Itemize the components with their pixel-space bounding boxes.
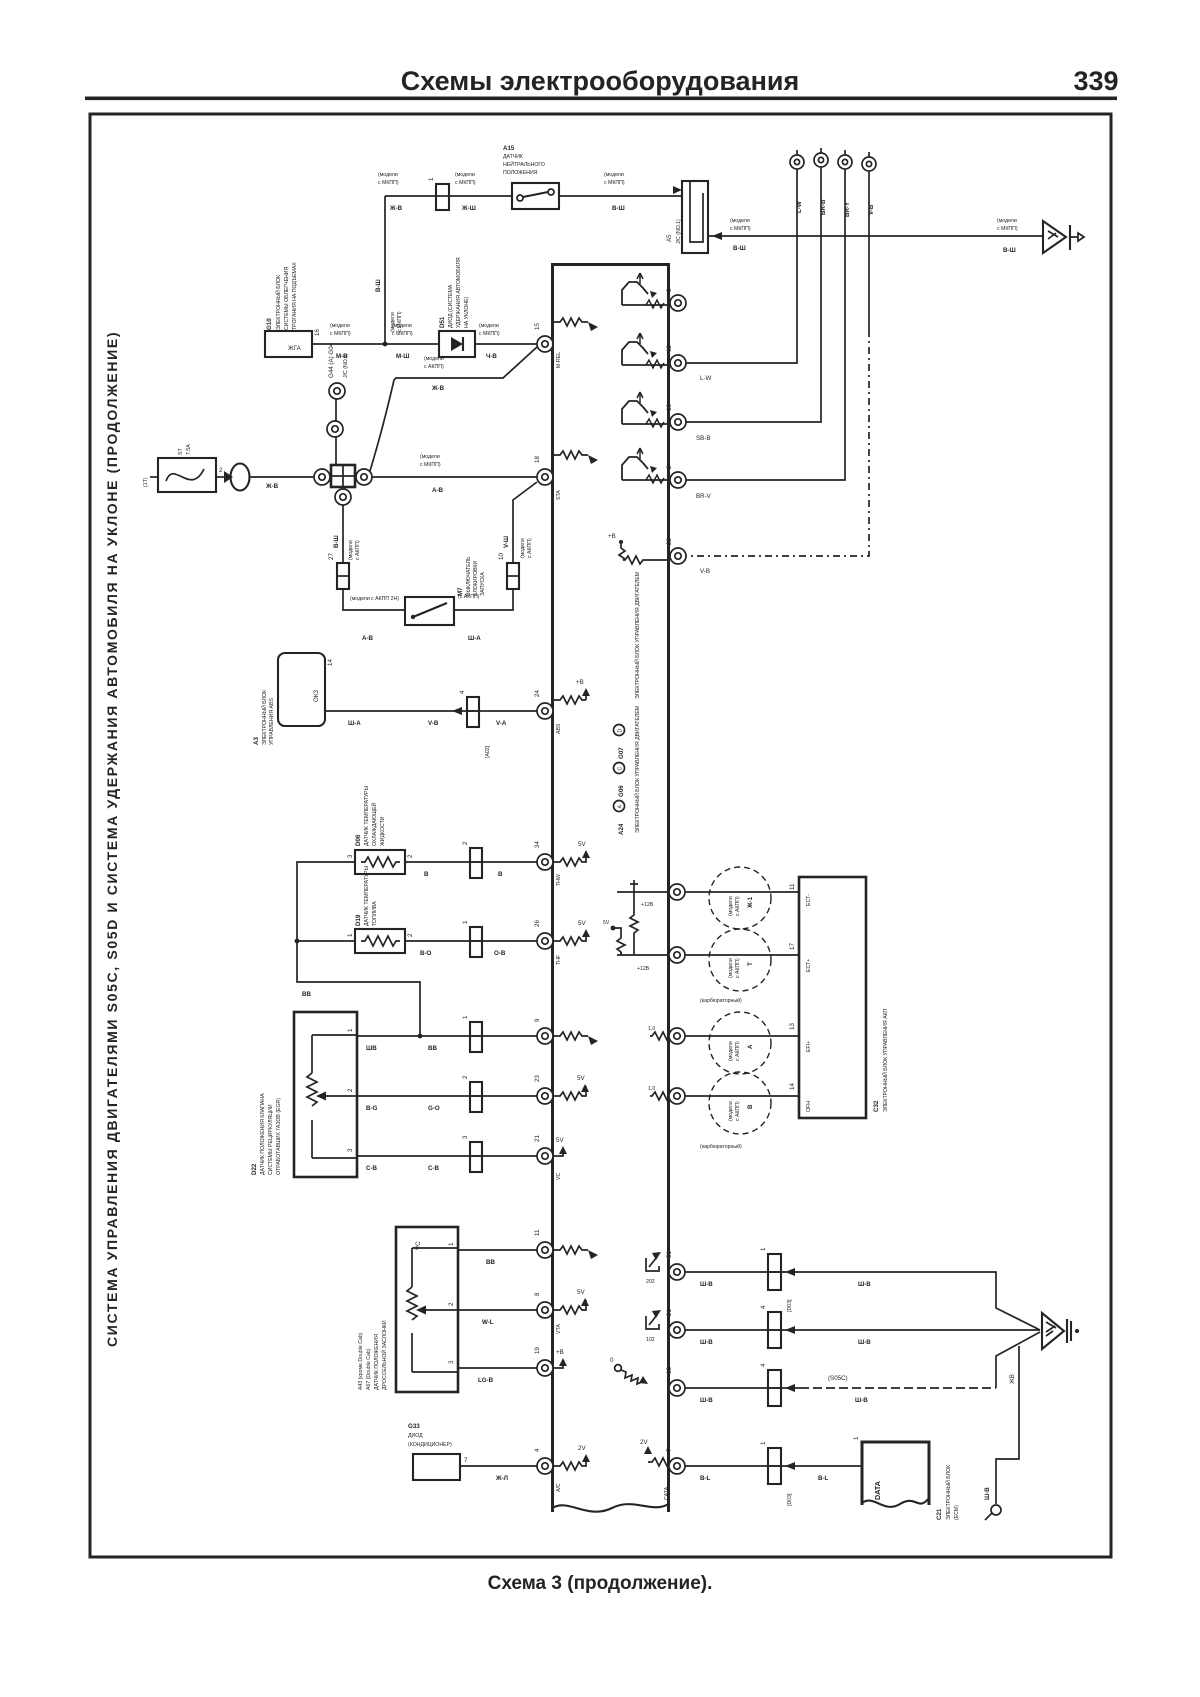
svg-text:с МКПП): с МКПП) <box>730 226 751 232</box>
svg-text:(модели с АКПП 2Н): (модели с АКПП 2Н) <box>350 596 399 602</box>
svg-text:В-О: В-О <box>420 950 432 957</box>
svg-text:(модели: (модели <box>728 1041 734 1061</box>
node A5 junction connector J/C NO.1 <box>666 181 708 253</box>
svg-text:V-А: V-А <box>496 720 507 727</box>
svg-text:с МКПП): с МКПП) <box>604 180 625 186</box>
node power symbol E01 <box>646 1252 661 1285</box>
svg-text:ОFН: ОFН <box>806 1101 812 1112</box>
svg-text:с АКПП): с АКПП) <box>735 1041 741 1061</box>
svg-text:VТА: VТА <box>556 1324 562 1334</box>
svg-text:18: 18 <box>666 1367 673 1374</box>
svg-text:V-В: V-В <box>428 720 439 727</box>
svg-text:СИСТЕМА УПРАВЛЕНИЯ ДВИГАТЕЛЯМИ: СИСТЕМА УПРАВЛЕНИЯ ДВИГАТЕЛЯМИ S05C, S05… <box>104 331 120 1347</box>
svg-text:ДРОССЕЛЬНОЙ ЗАСЛОНКИ: ДРОССЕЛЬНОЙ ЗАСЛОНКИ <box>380 1320 388 1390</box>
node pin 5 circle ECT- <box>669 884 685 900</box>
svg-text:В-Ш: В-Ш <box>333 535 340 548</box>
wire sensor ground bus <box>297 862 420 1036</box>
node junction block G44/G04 <box>314 342 372 505</box>
svg-text:G-О: G-О <box>428 1105 440 1112</box>
svg-text:1: 1 <box>347 1028 354 1032</box>
svg-text:БЛОКИРОВКИ: БЛОКИРОВКИ <box>473 561 479 596</box>
svg-text:0: 0 <box>610 1357 614 1364</box>
node pin 2 circle <box>670 472 686 488</box>
wire vertical BR-Y <box>686 169 845 480</box>
svg-text:(1Т): (1Т) <box>143 477 149 487</box>
node test point B dashed <box>709 1072 771 1134</box>
svg-text:34: 34 <box>534 841 541 848</box>
svg-text:7: 7 <box>464 1457 468 1464</box>
svg-text:5V: 5V <box>577 1289 585 1296</box>
node DATA link connector box <box>853 1436 929 1507</box>
svg-text:4: 4 <box>760 1363 767 1367</box>
wire header rule <box>85 97 1117 101</box>
svg-text:ЭЛЕКТРОННЫЙ БЛОК: ЭЛЕКТРОННЫЙ БЛОК <box>274 275 282 330</box>
resistor internal EFI <box>648 1026 672 1040</box>
resistor internal VC 5V <box>553 1137 567 1180</box>
diode D51 <box>439 257 475 357</box>
svg-text:ДАТЧИК: ДАТЧИК <box>503 154 523 160</box>
svg-text:Ж-В: Ж-В <box>431 385 445 392</box>
svg-text:9: 9 <box>534 1018 541 1022</box>
svg-text:G10: G10 <box>266 318 273 330</box>
svg-text:А67 (Double Cab): А67 (Double Cab) <box>366 1348 372 1390</box>
svg-text:ЖВ: ЖВ <box>1009 1374 1016 1384</box>
svg-text:(модели: (модели <box>730 218 750 224</box>
svg-text:А24: А24 <box>618 823 625 835</box>
svg-text:(КОНДИЦИОНЕР): (КОНДИЦИОНЕР) <box>408 1442 452 1448</box>
svg-text:Ж-В: Ж-В <box>265 483 279 490</box>
svg-text:1,0: 1,0 <box>648 1086 655 1092</box>
node pin 7 circle CATA <box>669 1458 685 1474</box>
svg-text:ДИОД: ДИОД <box>408 1433 423 1439</box>
svg-text:Ш-В: Ш-В <box>858 1339 871 1346</box>
svg-text:(модели: (модели <box>390 312 396 332</box>
svg-text:В-L: В-L <box>700 1475 711 1482</box>
svg-text:В-G: В-G <box>366 1105 378 1112</box>
resistor internal OFH <box>648 1086 672 1100</box>
node pin 12 circle <box>670 355 686 371</box>
svg-text:(карбюраторный): (карбюраторный) <box>700 997 742 1004</box>
svg-text:V-B: V-B <box>700 568 710 575</box>
svg-text:3: 3 <box>666 288 673 292</box>
svg-text:G07: G07 <box>618 747 625 759</box>
svg-text:G33: G33 <box>408 1423 420 1430</box>
svg-text:+В: +В <box>608 533 616 540</box>
resistor internal row E2 <box>554 1246 588 1254</box>
svg-text:НА УКЛОНЕ): НА УКЛОНЕ) <box>464 296 470 328</box>
node connector A05 row1 <box>470 1022 482 1052</box>
svg-text:А43 (кроме Double Cab): А43 (кроме Double Cab) <box>358 1332 364 1390</box>
node pin 21 circle VC <box>537 1148 553 1164</box>
svg-text:ЖИДКОСТИ: ЖИДКОСТИ <box>380 816 386 846</box>
wire vertical V-R dashed <box>868 171 870 330</box>
svg-text:4: 4 <box>534 1448 541 1452</box>
svg-text:2: 2 <box>219 467 223 474</box>
svg-text:ТОПЛИВА: ТОПЛИВА <box>372 901 378 926</box>
svg-text:В: В <box>424 871 429 878</box>
node pin 24 circle ABS <box>537 703 553 719</box>
node connector A02 <box>467 697 479 727</box>
svg-text:ВВ: ВВ <box>302 991 311 998</box>
svg-text:DATA: DATA <box>873 1481 882 1500</box>
node pin 8 circle VTA <box>537 1302 553 1318</box>
svg-text:+12В: +12В <box>641 902 654 908</box>
wire D22 row3 to ECU <box>357 1155 537 1157</box>
wire A43 row1 to ECU <box>458 1249 537 1251</box>
svg-text:САТА: САТА <box>664 1486 670 1500</box>
svg-text:D06: D06 <box>355 834 362 846</box>
node power symbol E02 <box>646 1310 661 1343</box>
svg-text:G44 (А) G04: G44 (А) G04 <box>328 342 335 378</box>
svg-text:с МКПП): с МКПП) <box>420 462 441 468</box>
svg-text:5V: 5V <box>578 841 586 848</box>
wire D22 row2 to ECU <box>357 1095 537 1097</box>
wire connector 10 up to STA <box>513 482 537 563</box>
svg-text:Ч-В: Ч-В <box>486 353 497 360</box>
svg-text:24: 24 <box>534 690 541 697</box>
resistor D06 coolant temp sensor <box>347 785 414 874</box>
svg-text:Схемы электрооборудования: Схемы электрооборудования <box>401 66 800 96</box>
svg-text:2: 2 <box>347 1088 354 1092</box>
svg-text:СИСТЕМЫ РЕЦИРКУЛЯЦИИ: СИСТЕМЫ РЕЦИРКУЛЯЦИИ <box>268 1104 274 1175</box>
node pin 22 circle <box>670 548 686 564</box>
svg-text:НЕЙТРАЛЬНОГО: НЕЙТРАЛЬНОГО <box>503 160 545 168</box>
node top terminal circles row <box>790 148 876 217</box>
svg-text:BR-V: BR-V <box>696 493 712 500</box>
node pin 4 circle AC <box>537 1458 553 1474</box>
svg-text:J/C (NO.1): J/C (NO.1) <box>343 353 349 378</box>
node pin 3 circle <box>670 295 686 311</box>
svg-text:2: 2 <box>462 1075 469 1079</box>
svg-text:(модели: (модели <box>479 323 499 329</box>
svg-text:ОТРАБОТАВШИХ ГАЗОВ (EGR): ОТРАБОТАВШИХ ГАЗОВ (EGR) <box>276 1098 282 1175</box>
op-amp U1 ECU main box <box>553 265 712 1513</box>
svg-text:ЭЛЕКТРОННЫЙ БЛОК: ЭЛЕКТРОННЫЙ БЛОК <box>260 690 268 745</box>
svg-text:ЕСТ-: ЕСТ- <box>806 894 812 906</box>
resistor E1 input <box>610 1357 648 1384</box>
wire D51 to ECU pin <box>475 343 537 345</box>
node pin 6 circle ECT+ <box>669 947 685 963</box>
svg-text:17: 17 <box>789 943 796 950</box>
svg-text:STA: STA <box>556 490 562 500</box>
svg-text:ЖГА: ЖГА <box>288 345 302 352</box>
svg-text:С: С <box>618 767 624 771</box>
svg-text:В: В <box>498 871 503 878</box>
svg-text:(с АКПП): (с АКПП) <box>458 594 480 600</box>
svg-text:А-В: А-В <box>432 487 444 494</box>
svg-text:2V: 2V <box>578 1445 586 1452</box>
svg-text:(модели: (модели <box>604 172 624 178</box>
node connector D03 bottom <box>768 1448 781 1484</box>
svg-text:ЕСТ+: ЕСТ+ <box>806 959 812 972</box>
node ECU connector codes A24 G06 G07 <box>614 725 626 836</box>
svg-text:ЕFI+: ЕFI+ <box>806 1041 812 1052</box>
svg-text:1: 1 <box>347 933 354 937</box>
svg-text:С32: С32 <box>873 1100 880 1112</box>
transistor Q1 <box>622 273 668 308</box>
node ECU outline <box>553 265 669 1513</box>
svg-text:339: 339 <box>1073 66 1118 96</box>
transistor Q3 <box>622 392 668 427</box>
svg-text:ВЫКЛЮЧАТЕЛЬ: ВЫКЛЮЧАТЕЛЬ <box>466 556 472 596</box>
svg-text:(модели: (модели <box>520 538 526 558</box>
svg-text:ЭЛЕКТРОННЫЙ БЛОК: ЭЛЕКТРОННЫЙ БЛОК <box>944 1465 952 1520</box>
svg-text:8: 8 <box>534 1292 541 1296</box>
wire ECT- to C32 <box>685 891 799 893</box>
svg-text:M-REL: M-REL <box>556 352 562 368</box>
node pin 21 circle E02 <box>669 1322 685 1338</box>
wire A5 to ground <box>708 235 1043 237</box>
svg-text:1: 1 <box>448 1242 455 1246</box>
node M7 start lock switch <box>405 556 486 625</box>
svg-text:22: 22 <box>666 538 673 545</box>
resistor internal row VTA <box>554 1289 589 1334</box>
svg-text:В-Ш: В-Ш <box>1003 247 1016 254</box>
wire A43 row3 to ECU <box>458 1367 537 1369</box>
svg-text:О-В: О-В <box>494 950 506 957</box>
svg-text:21: 21 <box>534 1135 541 1142</box>
svg-text:3: 3 <box>347 1148 354 1152</box>
node test point A dashed <box>709 1012 771 1074</box>
svg-text:Ш-А: Ш-А <box>468 635 481 642</box>
svg-text:ШВ: ШВ <box>366 1045 377 1052</box>
wire C1 to A15 <box>449 195 512 197</box>
wire vertical from y196 to G10 line <box>384 196 386 344</box>
svg-text:D51: D51 <box>439 316 446 328</box>
wire ground drop to terminal <box>996 1346 1019 1504</box>
svg-text:Ш-В: Ш-В <box>700 1397 713 1404</box>
svg-text:3: 3 <box>462 1135 469 1139</box>
node G10 control unit <box>265 262 321 357</box>
svg-text:[D03]: [D03] <box>787 1299 793 1312</box>
svg-text:А15: А15 <box>503 145 515 152</box>
svg-text:V-Ш: V-Ш <box>503 536 510 548</box>
resistor D19 fuel temp sensor <box>347 865 414 953</box>
svg-text:ДАТЧИК ПОЛОЖЕНИЯ КЛАПАНА: ДАТЧИК ПОЛОЖЕНИЯ КЛАПАНА <box>260 1093 266 1175</box>
node connector A05 row3 <box>470 1142 482 1172</box>
svg-text:2V: 2V <box>640 1439 648 1446</box>
node rightSide <box>603 867 1079 1520</box>
svg-text:14: 14 <box>327 659 334 666</box>
node pin 13 circle EFI <box>669 1028 685 1044</box>
node C32 transmission control unit <box>799 877 889 1118</box>
svg-text:(модели: (модели <box>348 540 354 560</box>
svg-text:СИСТЕМЫ ОБЛЕГЧЕНИЯ: СИСТЕМЫ ОБЛЕГЧЕНИЯ <box>284 266 290 330</box>
node A15 neutral position switch <box>503 145 559 209</box>
node pin 16 circle <box>670 414 686 430</box>
svg-text:15: 15 <box>534 323 541 330</box>
svg-text:ДАТЧИК ТЕМПЕРАТУРЫ: ДАТЧИК ТЕМПЕРАТУРЫ <box>364 785 370 846</box>
svg-text:2: 2 <box>448 1302 455 1306</box>
svg-text:(модели: (модели <box>455 172 475 178</box>
svg-text:11: 11 <box>534 1229 541 1236</box>
svg-text:LG-В: LG-В <box>478 1377 494 1384</box>
svg-text:с АКПП): с АКПП) <box>527 538 533 558</box>
svg-text:ОХЛАЖДАЮЩЕЙ: ОХЛАЖДАЮЩЕЙ <box>370 803 378 846</box>
svg-text:(карбюраторный): (карбюраторный) <box>700 1143 742 1150</box>
svg-text:ЗАПУСКА: ЗАПУСКА <box>480 572 486 596</box>
svg-text:с АКПП): с АКПП) <box>735 896 741 916</box>
svg-text:УПРАВЛЕНИЯ ABS: УПРАВЛЕНИЯ ABS <box>269 698 275 745</box>
wire D19 to ECU <box>405 940 537 942</box>
svg-text:Ж-Л: Ж-Л <box>495 1475 508 1482</box>
wire oval to junction <box>250 476 314 478</box>
wire E1 to ground S05C <box>685 1387 800 1389</box>
node pin 19 circle VCC <box>537 1360 553 1376</box>
wire junction to STA pin <box>372 476 537 478</box>
diode G33 air conditioner <box>408 1423 468 1480</box>
svg-text:Ш-А: Ш-А <box>348 720 361 727</box>
svg-text:27: 27 <box>328 553 335 560</box>
svg-text:(модели: (модели <box>997 218 1017 224</box>
node pin 18 circle E1 <box>669 1380 685 1396</box>
resistor internal CATA <box>640 1439 672 1500</box>
node connector D04 row2 <box>768 1312 781 1348</box>
resistor internal row VCC <box>553 1349 567 1368</box>
wire D22 row1 to ECU <box>357 1035 537 1037</box>
svg-text:ТРОГАНИЯ НА ПОДЪЕМАХ: ТРОГАНИЯ НА ПОДЪЕМАХ <box>292 262 298 330</box>
svg-text:Ш-В: Ш-В <box>858 1281 871 1288</box>
svg-text:31: 31 <box>666 1251 673 1258</box>
svg-text:+В: +В <box>556 1349 564 1356</box>
node pin 34 circle THW <box>537 854 553 870</box>
wire CATA to DATA box <box>685 1465 862 1467</box>
svg-text:4: 4 <box>459 690 466 694</box>
svg-text:с МКПП): с МКПП) <box>397 311 403 332</box>
svg-text:26: 26 <box>534 920 541 927</box>
svg-text:С-В: С-В <box>366 1165 378 1172</box>
wire A3 to ECU pin <box>325 710 537 712</box>
wire A15 to A5 <box>559 195 682 197</box>
wire D06 to ECU <box>405 861 537 863</box>
svg-text:(модели: (модели <box>420 454 440 460</box>
svg-text:А3: А3 <box>253 737 260 745</box>
svg-text:с АКПП): с АКПП) <box>735 958 741 978</box>
svg-text:с МКПП): с МКПП) <box>330 331 351 337</box>
wire G10 to D51 <box>312 343 439 345</box>
svg-text:1: 1 <box>853 1436 860 1440</box>
node connector C1 <box>436 184 449 210</box>
svg-text:Ж-1: Ж-1 <box>747 896 754 909</box>
transistor Q4 <box>622 448 668 483</box>
wire G33 to ECU <box>460 1465 537 1467</box>
svg-text:(S05С): (S05С) <box>828 1375 848 1382</box>
svg-text:Ш-В: Ш-В <box>855 1397 868 1404</box>
node C21 ECM label <box>936 1465 960 1520</box>
node pin 23 circle EGR2 <box>537 1088 553 1104</box>
wire vertical BR-B <box>686 167 821 422</box>
svg-text:ST: ST <box>178 448 184 455</box>
svg-text:+12В: +12В <box>637 966 650 972</box>
resistor internal EGR row2 <box>554 1075 589 1100</box>
node oval connector <box>231 464 250 491</box>
svg-text:А: А <box>747 1044 754 1049</box>
svg-text:С21: С21 <box>936 1508 943 1520</box>
node pin 31 circle E01 <box>669 1264 685 1280</box>
svg-text:С-В: С-В <box>428 1165 440 1172</box>
resistor internal EGR row1 <box>554 1032 588 1040</box>
svg-text:с МКПП): с МКПП) <box>997 226 1018 232</box>
node connector A25 row1 <box>470 848 482 878</box>
svg-text:1: 1 <box>760 1441 767 1445</box>
node connector 10 <box>507 563 519 589</box>
svg-text:16: 16 <box>314 329 321 336</box>
wire neutral switch line y196 <box>385 195 435 197</box>
node test point MT1 dashed <box>709 867 771 929</box>
wire E02 to ground <box>685 1329 1040 1331</box>
svg-text:L-W: L-W <box>700 375 712 382</box>
wire junction diagonal to AKPP line <box>370 347 537 471</box>
node pin 15 circle MREL <box>537 336 553 352</box>
svg-text:ЭЛЕКТРОННЫЙ БЛОК УПРАВЛЕНИЯ АК: ЭЛЕКТРОННЫЙ БЛОК УПРАВЛЕНИЯ АКП <box>881 1008 889 1112</box>
svg-text:G06: G06 <box>618 785 625 797</box>
svg-text:J/C (NO.1): J/C (NO.1) <box>676 219 682 244</box>
svg-text:5V: 5V <box>578 920 586 927</box>
ground chassis bottom-right <box>1042 1313 1079 1349</box>
svg-text:102: 102 <box>646 1337 655 1343</box>
svg-text:(модели: (модели <box>424 356 444 362</box>
svg-text:Ж-Ш: Ж-Ш <box>461 205 476 212</box>
svg-text:В: В <box>747 1104 754 1109</box>
transistor Q2 <box>622 333 668 368</box>
node pin 18 circle STA <box>537 469 553 485</box>
svg-text:ДАТЧИК ПОЛОЖЕНИЯ: ДАТЧИК ПОЛОЖЕНИЯ <box>374 1334 380 1390</box>
svg-text:ДАТЧИК ТЕМПЕРАТУРЫ: ДАТЧИК ТЕМПЕРАТУРЫ <box>364 865 370 926</box>
wire down to M7 <box>343 589 405 610</box>
svg-text:VС: VС <box>556 1173 562 1180</box>
wire junction bottom drop <box>342 505 344 563</box>
svg-text:7: 7 <box>666 1448 673 1452</box>
svg-text:1: 1 <box>462 1015 469 1019</box>
svg-text:5V: 5V <box>577 1075 585 1082</box>
svg-text:(модели: (модели <box>728 958 734 978</box>
svg-text:с АКПП): с АКПП) <box>424 364 444 370</box>
svg-text:2: 2 <box>407 933 414 937</box>
svg-text:ЭЛЕКТРОННЫЙ БЛОК УПРАВЛЕНИЯ ДВ: ЭЛЕКТРОННЫЙ БЛОК УПРАВЛЕНИЯ ДВИГАТЕЛЕМ <box>633 706 641 833</box>
node leftComponents <box>143 196 598 1492</box>
svg-text:D22: D22 <box>251 1163 258 1175</box>
svg-text:В-L: В-L <box>818 1475 829 1482</box>
svg-text:с АКПП): с АКПП) <box>355 540 361 560</box>
svg-text:В-Ш: В-Ш <box>612 205 625 212</box>
svg-text:18: 18 <box>534 456 541 463</box>
svg-text:ВВ: ВВ <box>428 1045 437 1052</box>
svg-text:с МКПП): с МКПП) <box>479 331 500 337</box>
svg-text:1,0: 1,0 <box>648 1026 655 1032</box>
svg-text:ТНW: ТНW <box>556 874 562 886</box>
node pin 26 circle THF <box>537 933 553 949</box>
svg-text:А/С: А/С <box>556 1483 562 1492</box>
resistor 5V internal THF <box>553 920 590 945</box>
wire ECU bottom torn edge <box>553 1504 669 1512</box>
svg-text:21: 21 <box>666 1309 673 1316</box>
node connector 27 <box>337 563 349 589</box>
svg-text:(модели: (модели <box>378 172 398 178</box>
node fuse ST 7.5A <box>143 444 223 492</box>
svg-text:5V: 5V <box>556 1137 564 1144</box>
svg-text:АВS: АВS <box>556 723 562 734</box>
resistor M-REL internal <box>554 318 598 368</box>
svg-text:Схема 3 (продолжение).: Схема 3 (продолжение). <box>488 1573 713 1594</box>
svg-text:D: D <box>618 729 624 733</box>
svg-text:W-L: W-L <box>482 1319 494 1326</box>
resistor +B pin22 <box>608 533 669 564</box>
svg-text:ЭЛЕКТРОННЫЙ БЛОК УПРАВЛЕНИЯ ДВ: ЭЛЕКТРОННЫЙ БЛОК УПРАВЛЕНИЯ ДВИГАТЕЛЕМ <box>633 572 641 699</box>
svg-text:В-Ш: В-Ш <box>375 279 382 292</box>
svg-text:16: 16 <box>666 404 673 411</box>
resistor internal AC 2V <box>553 1445 590 1492</box>
wire vertical L-W <box>686 169 797 363</box>
